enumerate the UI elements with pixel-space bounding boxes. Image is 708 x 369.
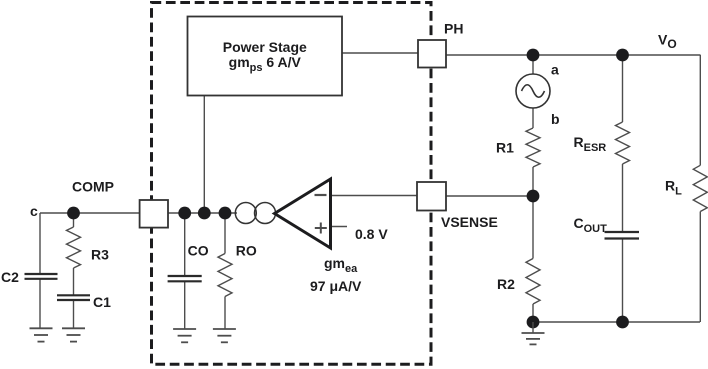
ground (CO) [173, 329, 196, 342]
resistor R2 [497, 259, 540, 305]
svg-text:R2: R2 [497, 276, 515, 292]
svg-text:gmea: gmea [324, 255, 358, 275]
svg-text:VO: VO [658, 32, 677, 52]
junction node COMP [67, 207, 80, 220]
svg-text:RO: RO [236, 243, 257, 259]
svg-text:b: b [551, 111, 560, 127]
wire: bottom rail [533, 321, 700, 323]
wire: VSENSE node to R2 [532, 196, 534, 259]
wire: C1 to ground [73, 300, 75, 328]
svg-text:Power Stage: Power Stage [223, 39, 307, 55]
junction node PH rail at RESR [616, 49, 629, 62]
wire: R2 to ground node [532, 304, 534, 322]
capacitor CO [168, 243, 209, 282]
junction node PH rail at AC source [527, 49, 540, 62]
wire: 0.8V reference stub [331, 226, 348, 228]
svg-text:PH: PH [444, 21, 463, 37]
resistor R3 [67, 227, 110, 268]
capacitor COUT [574, 215, 640, 239]
IC boundary dashed box [152, 3, 432, 365]
svg-text:COUT: COUT [574, 215, 608, 235]
wire: Vo down to RL [699, 55, 701, 165]
pin COMP [72, 179, 168, 228]
svg-text:a: a [551, 62, 559, 78]
svg-text:CO: CO [188, 243, 209, 259]
junction node bottom COUT [616, 316, 629, 329]
svg-text:0.8 V: 0.8 V [355, 226, 388, 242]
wire: COUT to bottom rail [622, 239, 624, 322]
wire: CO to ground [184, 282, 186, 330]
wire: top node to AC source [532, 55, 534, 75]
svg-text:COMP: COMP [72, 179, 114, 195]
capacitor C1 [57, 294, 111, 310]
wire: COMP pin to gm output node [168, 212, 237, 214]
svg-text:R1: R1 [496, 140, 514, 156]
svg-text:97 μA/V: 97 μA/V [310, 278, 362, 294]
svg-text:c: c [30, 203, 38, 219]
wire: R3 to C1 [73, 268, 75, 295]
resistor RESR [574, 122, 630, 164]
capacitor C2 [1, 269, 58, 285]
ground (C1) [62, 328, 85, 341]
wire: C2 to ground [39, 279, 41, 328]
power stage block U1 [188, 17, 343, 96]
wire: node to CO [184, 213, 186, 276]
ground (C2) [30, 328, 53, 341]
svg-text:R3: R3 [91, 247, 109, 263]
junction node CO [178, 207, 191, 220]
wire: R1 to VSENSE node [532, 167, 534, 196]
wire: node to RO [224, 213, 226, 254]
wire: power stage down to node [203, 96, 205, 214]
wire: RESR to COUT [622, 164, 624, 231]
wire: RO to ground [224, 297, 226, 330]
AC source V1 [516, 62, 560, 128]
wire: VSENSE pin to divider node [446, 195, 533, 197]
junction node bottom R2 [527, 316, 540, 329]
wire: power stage output to PH [342, 52, 418, 54]
wire: AC source to R1 [532, 108, 534, 129]
wire: COMP node to R3 [73, 213, 75, 227]
svg-text:VSENSE: VSENSE [441, 214, 498, 230]
gm output circles [235, 203, 275, 224]
pin VSENSE [417, 182, 498, 230]
svg-text:RESR: RESR [574, 134, 607, 154]
ground (RO) [213, 329, 236, 342]
junction node VSENSE divider [527, 190, 540, 203]
junction node power stage [198, 207, 211, 220]
wire: node c to COMP pin [40, 212, 140, 214]
wire: RL bottom to bottom rail [699, 212, 701, 323]
ground (R2) [522, 322, 545, 344]
wire: op-amp inverting input to VSENSE [331, 195, 418, 197]
op-amp U2 gm_ea [275, 179, 363, 294]
resistor RL [665, 165, 707, 211]
junction node RO [219, 207, 232, 220]
pin PH [418, 21, 463, 68]
resistor RO [218, 243, 257, 297]
wire: node c down to C2 [39, 213, 41, 274]
svg-text:C2: C2 [1, 269, 19, 285]
resistor R1 [496, 128, 540, 167]
wire: top node to RESR [622, 55, 624, 122]
svg-text:C1: C1 [93, 294, 111, 310]
wire: PH to Vo corner [446, 54, 701, 56]
svg-text:RL: RL [665, 178, 682, 198]
